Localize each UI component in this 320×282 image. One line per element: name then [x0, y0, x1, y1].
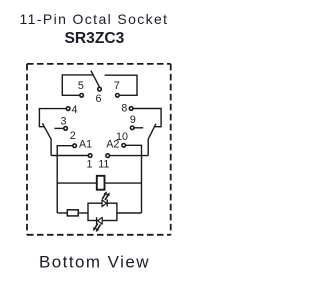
LED D2 (bottom, pointing left)	[93, 217, 102, 231]
wire LED loop rectangle	[88, 203, 117, 220]
svg-text:3: 3	[61, 115, 67, 127]
svg-text:5: 5	[78, 80, 84, 92]
pin 2	[73, 144, 77, 148]
contact lever pin11 (pole, right)	[148, 124, 156, 156]
svg-text:Bottom View: Bottom View	[39, 252, 150, 271]
socket outline (dashed border)	[27, 64, 171, 235]
pin 9	[130, 126, 134, 130]
svg-text:A2: A2	[106, 139, 119, 151]
coil K	[97, 176, 105, 190]
svg-text:2: 2	[70, 130, 76, 142]
svg-text:6: 6	[96, 93, 102, 105]
wire pin2 / A1 down to coil	[57, 146, 74, 213]
svg-text:7: 7	[114, 80, 120, 92]
wire resistor to LED loop	[78, 212, 88, 214]
contact lever pin1 (pole, left)	[42, 123, 51, 155]
pin 7	[116, 94, 120, 98]
wire pin4 fixed contact	[39, 109, 68, 127]
wire pin1	[51, 155, 90, 157]
pin 4	[66, 107, 70, 111]
pin 6	[98, 87, 102, 91]
wire pin3 stub	[54, 127, 65, 129]
pin 1	[88, 154, 92, 158]
pin 8	[129, 107, 133, 111]
wire coil left	[57, 182, 97, 184]
wire pin10 / A2 down to coil	[124, 145, 142, 213]
resistor R	[67, 210, 78, 216]
svg-text:SR3ZC3: SR3ZC3	[65, 30, 125, 47]
wire pin11	[108, 155, 149, 157]
svg-text:8: 8	[121, 103, 127, 115]
svg-text:1: 1	[87, 159, 93, 171]
contact lever pin6 (pole)	[91, 71, 100, 87]
wire pin5 fixed-contact hook	[62, 75, 93, 95]
wire LED branch left	[57, 212, 67, 214]
svg-text:11: 11	[98, 159, 109, 171]
wire LED loop exit	[117, 212, 142, 214]
LED D1 (top, pointing right)	[102, 192, 109, 207]
pin 5	[80, 94, 84, 98]
wire pin7 fixed-contact hook	[105, 75, 137, 95]
pin 11	[106, 154, 110, 158]
svg-text:11-Pin Octal Socket: 11-Pin Octal Socket	[20, 11, 169, 27]
svg-text:9: 9	[130, 114, 136, 126]
wire pin8 fixed contact	[131, 109, 161, 127]
wire coil right	[105, 182, 142, 184]
pin 3	[64, 127, 68, 131]
svg-text:4: 4	[72, 104, 78, 116]
wire pin9 stub	[132, 127, 143, 129]
svg-text:A1: A1	[79, 138, 92, 150]
pin 10	[122, 144, 126, 148]
